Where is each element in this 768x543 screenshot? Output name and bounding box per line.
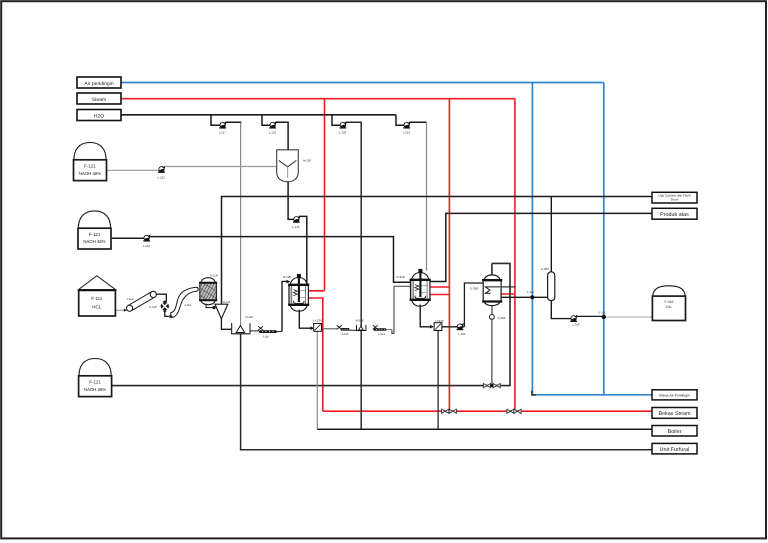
svg-text:Bekas Air Pendingin: Bekas Air Pendingin (659, 393, 689, 397)
wire: E-360 liquid to D-363 (501, 296, 548, 298)
svg-text:L-129: L-129 (339, 131, 347, 135)
tank F-121 no.2 (78, 211, 111, 249)
wire: H-124 to H-208 to riser (grey) (321, 328, 337, 330)
wire: H2O branch via L-129 down to H-208 and boiler header (332, 115, 340, 125)
wire: H2O branch via L-123 (262, 115, 270, 125)
screw feeder J-120 (341, 328, 350, 336)
reactor R-120 (283, 274, 309, 311)
conveyor J-112 (127, 291, 157, 311)
svg-text:F-318: F-318 (664, 300, 673, 304)
column D-363 (541, 267, 555, 301)
junction dot G-364 line (490, 384, 493, 387)
svg-text:J-112: J-112 (127, 297, 134, 301)
wire: F-111 outlet (115, 309, 124, 311)
weigh feeder H-116 (231, 315, 253, 334)
pump L-123 (269, 121, 277, 134)
wire: R-120 jacket condensate (red) (309, 298, 323, 411)
box Bekas Air Pendingin (652, 390, 697, 400)
wire: steam header (red) (121, 98, 515, 100)
box H2O (77, 110, 121, 121)
svg-text:L-214: L-214 (403, 131, 411, 135)
svg-text:HCL: HCL (92, 305, 101, 310)
wire: cooling water drop 1 (blue) (532, 83, 652, 395)
reactor R-210 (397, 269, 431, 306)
wire: E-360 bottom via G-364 (491, 305, 493, 385)
wire: R-210 bottom to H-215 (420, 305, 433, 327)
arrow into H-124 (310, 326, 314, 330)
crusher C-110 (149, 294, 169, 316)
svg-text:H-215: H-215 (435, 319, 444, 323)
svg-text:C-110: C-110 (149, 305, 157, 309)
wire: steam branch to R-120 jacket (red) (309, 99, 325, 291)
box Unit Furfural (652, 443, 697, 454)
wire: water line down to H-116 (grey) (240, 123, 242, 325)
valve after H-124 (337, 325, 342, 329)
bin D-118 (193, 274, 225, 305)
wire: steam branch to E-360 (red) (501, 99, 515, 412)
svg-text:H-115: H-115 (223, 300, 231, 304)
screw feeder L-213 (374, 328, 387, 336)
box Uap Cyclone dan Flash Drum (652, 192, 697, 203)
wire: NAOH tank2 to R-210 (112, 237, 144, 239)
svg-text:Air pendingin: Air pendingin (84, 81, 113, 87)
cooler E-361 junction (527, 291, 534, 299)
tank F-318 (652, 286, 685, 321)
wire: H2O header (120, 114, 396, 116)
evaporator E-360 (470, 275, 502, 306)
mixer M-126 (277, 150, 312, 182)
svg-text:L-123: L-123 (269, 131, 277, 135)
wire: NAOH tank1 to mixer (grey) (107, 169, 159, 171)
svg-text:M-126: M-126 (303, 158, 311, 162)
pump L-122 (158, 166, 166, 180)
svg-text:L-311: L-311 (459, 332, 466, 336)
svg-text:L-125: L-125 (292, 225, 300, 229)
wire: cooling water drop 2 (blue) (603, 83, 605, 395)
svg-text:CSL: CSL (666, 305, 672, 309)
svg-text:H-116: H-116 (245, 315, 253, 319)
screw conveyor J-114 (169, 287, 198, 318)
svg-text:E-360: E-360 (470, 287, 478, 291)
svg-text:J-120: J-120 (342, 333, 349, 336)
wire: riser to R-210 left (grey) (392, 286, 411, 333)
wire: H2O branch via L-117 (211, 115, 220, 125)
wire: steam branch to R-210 jacket (red) (430, 99, 450, 412)
chute D-118 to H-115 (206, 304, 216, 310)
wire: boiler header (317, 428, 652, 430)
svg-text:Produk atas: Produk atas (660, 212, 689, 218)
svg-text:H2O: H2O (94, 113, 104, 119)
screw feeder J-118 (259, 330, 277, 338)
tank F-121 no.3 (79, 359, 112, 397)
svg-text:L-117: L-117 (219, 131, 226, 135)
wire: D-363 bottom via L-316 to F-318 (551, 301, 571, 319)
svg-text:J-118: J-118 (262, 336, 269, 339)
heat exchanger H-124 (314, 319, 323, 332)
svg-text:R-210: R-210 (397, 275, 406, 279)
svg-text:D-118: D-118 (210, 274, 218, 278)
svg-text:E-361: E-361 (527, 291, 534, 294)
pump L-125 (292, 216, 300, 229)
tank F-121 no.1 (74, 143, 107, 181)
svg-text:J-114: J-114 (184, 303, 191, 307)
wire: mixer outlet via L-125 to R-120 (288, 182, 294, 220)
svg-text:H-124: H-124 (314, 319, 323, 323)
svg-text:Unit Furfural: Unit Furfural (660, 447, 690, 453)
hopper H-115 (215, 300, 231, 319)
steam trap pair on bekas steam (left) (442, 409, 457, 413)
svg-text:L-212: L-212 (143, 244, 151, 248)
cooler E-312 junction (599, 311, 606, 319)
arrow into H-215 (430, 325, 434, 329)
wire: H-115 to H-116 (221, 319, 231, 330)
svg-text:D-363: D-363 (541, 267, 550, 271)
box Bekas Steam (652, 408, 697, 419)
pump L-212 (143, 234, 151, 247)
steam trap pair on bekas steam (right) (507, 409, 521, 413)
svg-text:L-316: L-316 (572, 323, 580, 327)
box Steam (77, 93, 121, 104)
steam trap pair on NAOH line (483, 384, 500, 388)
wire: line down to unit furfural header (241, 334, 652, 450)
svg-text:L-122: L-122 (158, 175, 166, 179)
svg-text:Boiler: Boiler (668, 429, 682, 435)
wire: bekas steam header (red) (323, 410, 652, 412)
wire: uap cyclone dan flash drum header (222, 197, 653, 304)
svg-text:F-111: F-111 (91, 296, 103, 301)
arrow into conveyor J-112 (124, 309, 127, 312)
wire: NAOH tank3 line to E-360 riser (111, 263, 510, 385)
wire: D-363 top riser (550, 197, 552, 272)
svg-text:Drum: Drum (671, 198, 679, 202)
wire: E-360 vapour right (501, 286, 516, 288)
svg-text:Steam: Steam (92, 97, 106, 103)
wire: cooling water header (blue) (121, 82, 604, 84)
box Produk atas (652, 208, 697, 219)
svg-text:E-312: E-312 (599, 311, 606, 314)
svg-text:H-208: H-208 (356, 318, 364, 322)
pump L-311 (457, 323, 466, 336)
pump G-364 (490, 315, 506, 320)
wire: produk atas line from R-210 (430, 213, 652, 281)
wire: R-120 bottom to H-124 (299, 310, 312, 328)
valve after H-208 (373, 325, 378, 329)
wire: riser to R-120 top (282, 281, 288, 331)
box Boiler (652, 426, 697, 437)
pump L-316 (570, 315, 580, 327)
pump L-117 (219, 121, 226, 134)
pump L-129 (339, 121, 347, 134)
valve at J-118 (258, 326, 263, 330)
wire: H-215 bottom drain (437, 330, 439, 429)
wire: H2O branch via L-214 (grey drop to R-210) (396, 115, 404, 125)
tank F-111 HCL (78, 276, 116, 316)
wire: H-215 to L-311 to E-360 (442, 283, 483, 327)
heat exchanger H-215 (434, 319, 444, 331)
wire: H-124 bottom drain (grey) (316, 331, 318, 429)
box Air pendingin (77, 77, 121, 88)
wire: cooling water corner mark (532, 391, 536, 395)
svg-text:L-213: L-213 (378, 333, 385, 336)
wire: H-116 to riser (250, 330, 259, 332)
pump L-214 (403, 121, 411, 134)
svg-text:G-364: G-364 (498, 316, 506, 320)
weigh feeder H-208 (356, 318, 367, 330)
svg-text:Bekas Steam: Bekas Steam (658, 411, 691, 417)
svg-text:R-120: R-120 (283, 275, 292, 279)
